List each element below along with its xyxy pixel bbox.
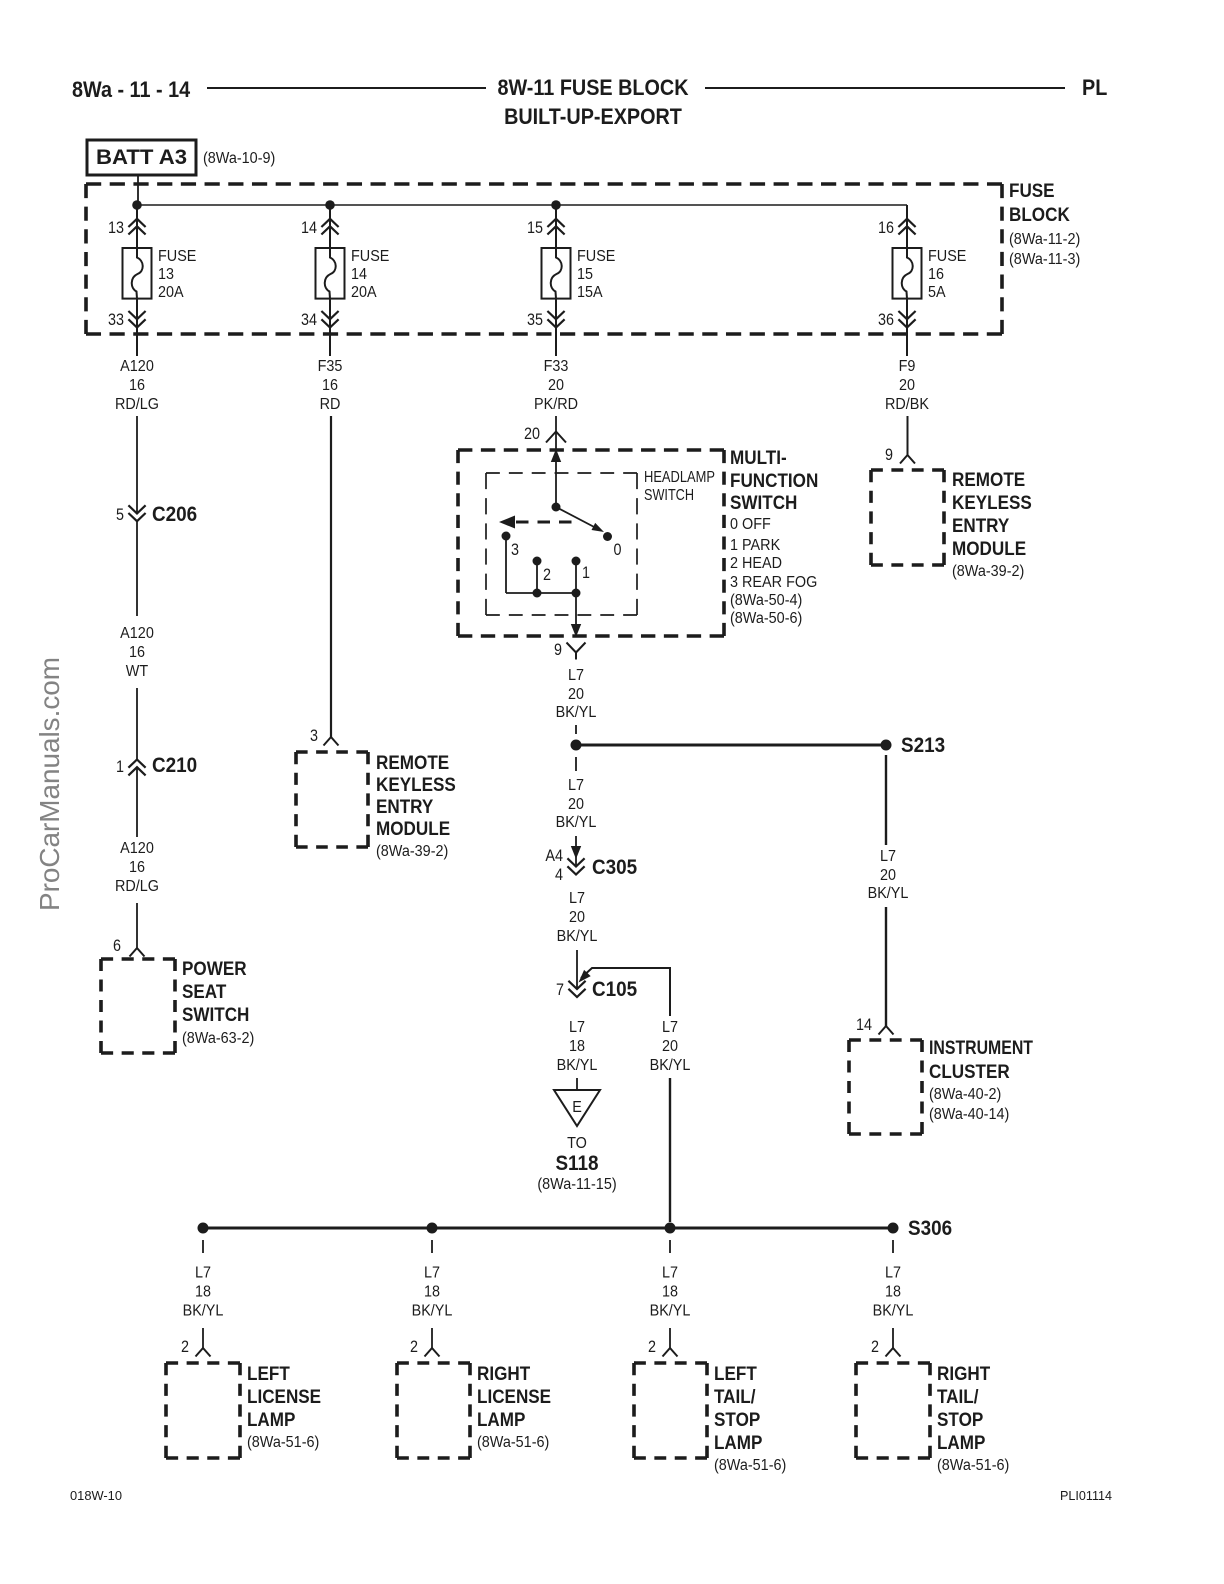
- splice node S306 c: [665, 1223, 676, 1234]
- svg-text:16: 16: [928, 266, 944, 283]
- svg-text:F9: F9: [899, 358, 916, 375]
- junction node under contact 1: [572, 589, 581, 598]
- fuse F15 symbol: [542, 248, 571, 299]
- fuse F16 symbol: [893, 248, 922, 299]
- component right license lamp (dashed box): [397, 1363, 470, 1458]
- svg-text:BK/YL: BK/YL: [650, 1057, 691, 1074]
- svg-text:E: E: [572, 1099, 582, 1116]
- wire F9 from fuse 16 to RKE module: [907, 416, 909, 455]
- svg-text:15: 15: [577, 266, 593, 283]
- svg-text:F35: F35: [318, 358, 343, 375]
- svg-text:1 PARK: 1 PARK: [730, 537, 781, 554]
- svg-text:L7: L7: [885, 1265, 901, 1282]
- label FUSE BLOCK: [1009, 181, 1080, 268]
- svg-text:6: 6: [113, 937, 121, 955]
- component left tail/stop lamp (dashed box): [634, 1363, 707, 1458]
- svg-text:14: 14: [351, 266, 367, 283]
- pin 36 connector chevrons: [898, 311, 915, 328]
- svg-text:20: 20: [899, 377, 915, 394]
- svg-text:(8Wa-51-6): (8Wa-51-6): [247, 1434, 319, 1451]
- svg-text:PK/RD: PK/RD: [534, 396, 578, 413]
- connector C206 chevrons: [128, 505, 145, 521]
- svg-text:BK/YL: BK/YL: [650, 1303, 691, 1320]
- splice node S306 d: [888, 1223, 899, 1234]
- fuse branch wire (fuse 16): [906, 205, 908, 356]
- wire from BATT A3 to fuse block bus: [137, 175, 139, 205]
- label MULTI-FUNCTION SWITCH: [730, 448, 818, 514]
- svg-text:BK/YL: BK/YL: [556, 814, 597, 831]
- svg-text:8Wa - 11 - 14: 8Wa - 11 - 14: [72, 77, 191, 102]
- svg-text:16: 16: [129, 859, 145, 876]
- svg-text:L7: L7: [568, 777, 584, 794]
- wire label L7 18 BK/YL to left tail/stop lamp: [650, 1265, 691, 1320]
- svg-text:FUNCTION: FUNCTION: [730, 471, 818, 492]
- svg-text:FUSE: FUSE: [158, 248, 196, 265]
- svg-text:18: 18: [195, 1284, 211, 1301]
- wire into right tail/stop lamp: [892, 1328, 894, 1348]
- svg-text:SEAT: SEAT: [182, 982, 227, 1003]
- label INSTRUMENT CLUSTER: [929, 1038, 1033, 1123]
- battery feed BATT A3 box: [87, 140, 196, 175]
- svg-text:BK/YL: BK/YL: [557, 1057, 598, 1074]
- connector C105 chevrons: [568, 981, 585, 997]
- svg-text:8W-11 FUSE BLOCK: 8W-11 FUSE BLOCK: [498, 75, 689, 100]
- wire into left tail/stop lamp: [669, 1328, 671, 1348]
- svg-text:S118: S118: [555, 1152, 598, 1175]
- svg-text:BK/YL: BK/YL: [873, 1303, 914, 1320]
- svg-text:STOP: STOP: [937, 1410, 984, 1431]
- svg-text:20: 20: [880, 867, 896, 884]
- wire label F33 20 PK/RD: [534, 358, 578, 413]
- svg-text:20: 20: [568, 796, 584, 813]
- svg-text:BK/YL: BK/YL: [868, 885, 909, 902]
- wire stub below S306 to left license lamp: [202, 1240, 204, 1253]
- wire into right license lamp: [431, 1328, 433, 1348]
- label REMOTE KEYLESS ENTRY MODULE: [376, 753, 456, 860]
- svg-text:L7: L7: [569, 1019, 585, 1036]
- splice node S213 right: [881, 740, 892, 751]
- svg-text:2: 2: [648, 1338, 656, 1356]
- splice node S306 b: [427, 1223, 438, 1234]
- svg-text:(8Wa-39-2): (8Wa-39-2): [376, 843, 448, 860]
- svg-text:TO: TO: [567, 1135, 587, 1152]
- svg-text:SWITCH: SWITCH: [644, 487, 694, 504]
- wire label F9 20 RD/BK: [885, 358, 930, 413]
- svg-text:STOP: STOP: [714, 1410, 761, 1431]
- svg-text:RIGHT: RIGHT: [477, 1364, 531, 1385]
- connector C210 chevrons: [128, 760, 145, 776]
- connector pin 9 of switch output: [567, 643, 586, 660]
- wire label L7 18 BK/YL to right tail/stop lamp: [873, 1265, 914, 1320]
- svg-text:TAIL/: TAIL/: [937, 1387, 979, 1408]
- multi-function switch outer dashed box: [458, 450, 724, 636]
- wire A120 from C206 to label: [136, 521, 138, 616]
- svg-text:9: 9: [554, 641, 562, 659]
- wire into left license lamp: [202, 1328, 204, 1348]
- component instrument cluster (dashed box): [849, 1040, 922, 1134]
- pin 15 connector chevrons: [547, 219, 564, 235]
- svg-text:14: 14: [301, 219, 317, 237]
- svg-text:PL: PL: [1082, 75, 1107, 100]
- connector pin 2 of left tail/stop lamp: [663, 1348, 678, 1357]
- svg-text:5: 5: [116, 506, 124, 524]
- connector pin 20 of multi-function switch: [546, 432, 566, 443]
- wire label L7 18 BK/YL to right license lamp: [412, 1265, 453, 1320]
- wire into C105: [576, 950, 578, 989]
- wire into C305: [575, 836, 577, 867]
- svg-text:L7: L7: [662, 1265, 678, 1282]
- fuse branch wire (fuse 13): [136, 205, 138, 356]
- switch position legend: [730, 516, 817, 627]
- svg-text:ENTRY: ENTRY: [952, 516, 1010, 537]
- svg-text:PLI01114: PLI01114: [1060, 1488, 1112, 1503]
- wire A120 from C210 down: [136, 767, 138, 837]
- svg-text:POWER: POWER: [182, 959, 247, 980]
- wire to instrument cluster: [885, 907, 887, 1026]
- svg-text:20A: 20A: [351, 284, 377, 301]
- header rule left: [207, 87, 486, 89]
- svg-text:(8Wa-11-2): (8Wa-11-2): [1009, 231, 1080, 248]
- wire F35 from fuse 14 to RKE module: [330, 416, 332, 737]
- wire label L7 20 BK/YL right branch: [650, 1019, 691, 1074]
- svg-text:18: 18: [662, 1284, 678, 1301]
- fuse F14 value label: [351, 248, 389, 301]
- wire stub below S306 to right tail/stop lamp: [892, 1240, 894, 1253]
- svg-text:FUSE: FUSE: [351, 248, 389, 265]
- svg-text:16: 16: [878, 219, 894, 237]
- connector pin 2 of left license lamp: [196, 1348, 211, 1357]
- svg-text:20: 20: [548, 377, 564, 394]
- splice node S306 a: [198, 1223, 209, 1234]
- switch travel dashed arrow: [499, 516, 577, 529]
- svg-text:KEYLESS: KEYLESS: [376, 775, 456, 796]
- fuse F15 value label: [577, 248, 615, 301]
- switch contact node 1: [572, 557, 581, 566]
- svg-text:13: 13: [108, 219, 124, 237]
- svg-text:15: 15: [527, 219, 543, 237]
- branch wire to right tail lamps feed: [579, 968, 671, 1016]
- svg-text:7: 7: [556, 981, 564, 999]
- label left license lamp: [247, 1364, 321, 1451]
- splice wire S213: [576, 744, 886, 747]
- svg-text:MULTI-: MULTI-: [730, 448, 787, 469]
- svg-text:A120: A120: [120, 358, 154, 375]
- svg-text:RD/LG: RD/LG: [115, 396, 159, 413]
- switch output wire: [575, 593, 577, 637]
- pin 33 connector chevrons: [128, 311, 145, 328]
- ground symbol E (to S118): [554, 1090, 600, 1126]
- fuse F13 symbol: [123, 248, 152, 299]
- wire A120 to power seat switch: [136, 903, 138, 948]
- connector pin 3 of RKE module: [324, 737, 339, 746]
- svg-text:SWITCH: SWITCH: [182, 1005, 249, 1026]
- splice node S213 left: [571, 740, 582, 751]
- svg-text:9: 9: [885, 446, 893, 464]
- svg-text:A4: A4: [545, 847, 563, 865]
- arrow into switch housing: [551, 449, 561, 462]
- label left tail/stop lamp: [714, 1364, 786, 1474]
- svg-text:L7: L7: [195, 1265, 211, 1282]
- wire stub below splice S213: [575, 757, 577, 771]
- switch contact node 3: [502, 532, 511, 541]
- wire label L7 20 BK/YL above C305: [556, 777, 597, 831]
- svg-text:F33: F33: [544, 358, 569, 375]
- connector pin 6 of power seat switch: [130, 948, 145, 957]
- component remote keyless entry module right (dashed box): [871, 470, 944, 565]
- svg-text:FUSE: FUSE: [1009, 181, 1055, 202]
- svg-text:(8Wa-39-2): (8Wa-39-2): [952, 563, 1024, 580]
- svg-text:MODULE: MODULE: [952, 539, 1026, 560]
- wire label L7 20 BK/YL above C105: [557, 890, 598, 945]
- svg-text:LICENSE: LICENSE: [247, 1387, 321, 1408]
- pin 34 connector chevrons: [321, 311, 338, 328]
- svg-text:INSTRUMENT: INSTRUMENT: [929, 1038, 1033, 1059]
- svg-text:HEADLAMP: HEADLAMP: [644, 469, 715, 486]
- svg-text:(8Wa-50-6): (8Wa-50-6): [730, 610, 802, 627]
- svg-text:14: 14: [856, 1016, 872, 1034]
- label HEADLAMP SWITCH: [644, 469, 715, 504]
- wire label A120 16 WT: [120, 625, 154, 680]
- svg-text:2: 2: [871, 1338, 879, 1356]
- svg-text:1: 1: [582, 564, 590, 582]
- svg-text:3: 3: [310, 727, 318, 745]
- switch internal wiring from contact 3: [506, 536, 576, 593]
- wire label L7 20 BK/YL right column: [868, 848, 909, 902]
- connector C305 chevrons: [567, 858, 584, 874]
- svg-text:C105: C105: [592, 978, 637, 1001]
- svg-text:(8Wa-40-14): (8Wa-40-14): [929, 1106, 1009, 1123]
- svg-text:TAIL/: TAIL/: [714, 1387, 756, 1408]
- junction node on bus at fuse 15: [551, 200, 561, 210]
- wire label F35 16 RD: [318, 358, 343, 413]
- svg-text:A120: A120: [120, 840, 154, 857]
- header rule right: [705, 87, 1065, 89]
- svg-text:(8Wa-63-2): (8Wa-63-2): [182, 1030, 254, 1047]
- label POWER SEAT SWITCH: [182, 959, 254, 1047]
- fuse F14 symbol: [316, 248, 345, 299]
- svg-text:(8Wa-51-6): (8Wa-51-6): [937, 1457, 1009, 1474]
- svg-text:RIGHT: RIGHT: [937, 1364, 991, 1385]
- wire stub below S306 to right license lamp: [431, 1240, 433, 1253]
- svg-text:L7: L7: [424, 1265, 440, 1282]
- wire label A120 16 RD/LG: [115, 840, 159, 895]
- svg-text:S306: S306: [908, 1217, 952, 1240]
- label right license lamp: [477, 1364, 551, 1451]
- svg-text:3: 3: [511, 541, 519, 559]
- svg-text:0 OFF: 0 OFF: [730, 516, 771, 533]
- junction node under contact 2: [533, 589, 542, 598]
- svg-text:LAMP: LAMP: [477, 1410, 526, 1431]
- svg-text:2: 2: [181, 1338, 189, 1356]
- connector pin 9 of RKE module right: [900, 455, 915, 464]
- wire label L7 18 BK/YL to left license lamp: [183, 1265, 224, 1320]
- svg-text:A120: A120: [120, 625, 154, 642]
- wire label A120 16 RD/LG: [115, 358, 159, 413]
- svg-text:BK/YL: BK/YL: [557, 928, 598, 945]
- svg-text:16: 16: [129, 377, 145, 394]
- wire label L7 20 BK/YL below switch: [556, 667, 597, 721]
- pin 13 connector chevrons: [128, 219, 145, 235]
- svg-text:34: 34: [301, 311, 317, 329]
- svg-text:20: 20: [662, 1038, 678, 1055]
- svg-text:18: 18: [569, 1038, 585, 1055]
- svg-text:16: 16: [322, 377, 338, 394]
- label TO S118: [537, 1135, 616, 1193]
- splice wire S306: [203, 1227, 893, 1230]
- fuse branch wire (fuse 15): [555, 205, 557, 356]
- svg-text:36: 36: [878, 311, 894, 329]
- svg-text:35: 35: [527, 311, 543, 329]
- component power seat switch (dashed box): [101, 959, 175, 1053]
- switch movable arm with arrow: [556, 507, 604, 532]
- connector pin 14 of instrument cluster: [879, 1026, 894, 1035]
- connector pin 2 of right tail/stop lamp: [886, 1348, 901, 1357]
- svg-text:WT: WT: [126, 663, 149, 680]
- svg-text:1: 1: [116, 758, 124, 776]
- pin 16 connector chevrons: [898, 219, 915, 235]
- switch contact node 2: [533, 557, 542, 566]
- wire A120 from fuse 13 to C206: [136, 416, 138, 514]
- component remote keyless entry module left (dashed box): [296, 752, 368, 847]
- svg-text:(8Wa-10-9): (8Wa-10-9): [203, 150, 275, 167]
- svg-text:SWITCH: SWITCH: [730, 493, 797, 514]
- svg-text:(8Wa-50-4): (8Wa-50-4): [730, 592, 802, 609]
- svg-text:LAMP: LAMP: [937, 1433, 986, 1454]
- svg-text:13: 13: [158, 266, 174, 283]
- svg-text:3 REAR FOG: 3 REAR FOG: [730, 574, 817, 591]
- wire into ground symbol: [576, 1078, 578, 1090]
- fuse F13 value label: [158, 248, 196, 301]
- arrow into C305: [571, 846, 581, 859]
- svg-text:BATT A3: BATT A3: [96, 146, 187, 169]
- wire from S213 down: [885, 755, 887, 845]
- svg-text:LICENSE: LICENSE: [477, 1387, 551, 1408]
- svg-text:KEYLESS: KEYLESS: [952, 493, 1032, 514]
- svg-text:L7: L7: [880, 848, 896, 865]
- arrow out of switch housing: [571, 624, 581, 637]
- svg-text:ProCarManuals.com: ProCarManuals.com: [34, 657, 65, 911]
- svg-text:RD: RD: [320, 396, 341, 413]
- svg-text:FUSE: FUSE: [928, 248, 966, 265]
- svg-text:(8Wa-11-15): (8Wa-11-15): [537, 1176, 616, 1193]
- svg-text:20: 20: [524, 425, 540, 443]
- svg-text:018W-10: 018W-10: [70, 1488, 122, 1503]
- label right tail/stop lamp: [937, 1364, 1009, 1474]
- pin 14 connector chevrons: [321, 219, 338, 235]
- svg-text:2 HEAD: 2 HEAD: [730, 555, 782, 572]
- svg-text:C206: C206: [152, 503, 197, 526]
- headlamp switch inner dashed box: [486, 473, 637, 615]
- svg-text:RD/BK: RD/BK: [885, 396, 930, 413]
- svg-text:L7: L7: [568, 667, 584, 684]
- svg-text:(8Wa-51-6): (8Wa-51-6): [477, 1434, 549, 1451]
- svg-text:L7: L7: [662, 1019, 678, 1036]
- wire right branch down to S306: [669, 1078, 671, 1222]
- svg-text:LEFT: LEFT: [247, 1364, 290, 1385]
- svg-text:BK/YL: BK/YL: [556, 704, 597, 721]
- svg-text:18: 18: [424, 1284, 440, 1301]
- svg-text:(8Wa-51-6): (8Wa-51-6): [714, 1457, 786, 1474]
- svg-text:C305: C305: [592, 856, 637, 879]
- svg-text:LAMP: LAMP: [247, 1410, 296, 1431]
- label REMOTE KEYLESS ENTRY MODULE right: [952, 470, 1032, 580]
- svg-text:(8Wa-11-3): (8Wa-11-3): [1009, 251, 1080, 268]
- svg-text:BK/YL: BK/YL: [183, 1303, 224, 1320]
- bus wire inside fuse block: [137, 204, 907, 206]
- svg-text:S213: S213: [901, 734, 945, 757]
- svg-text:MODULE: MODULE: [376, 819, 450, 840]
- svg-text:(8Wa-40-2): (8Wa-40-2): [929, 1086, 1001, 1103]
- svg-text:20: 20: [568, 686, 584, 703]
- svg-text:LAMP: LAMP: [714, 1433, 763, 1454]
- fuse branch wire (fuse 14): [329, 205, 331, 356]
- svg-text:2: 2: [543, 566, 551, 584]
- fuse block dashed outline: [86, 184, 1002, 334]
- svg-text:BUILT-UP-EXPORT: BUILT-UP-EXPORT: [504, 104, 682, 129]
- fuse F16 value label: [928, 248, 966, 301]
- wire F33 from fuse 15 to switch: [555, 416, 557, 507]
- svg-text:0: 0: [614, 541, 622, 559]
- svg-text:16: 16: [129, 644, 145, 661]
- svg-text:FUSE: FUSE: [577, 248, 615, 265]
- component left license lamp (dashed box): [166, 1363, 240, 1458]
- svg-text:CLUSTER: CLUSTER: [929, 1062, 1010, 1083]
- svg-text:15A: 15A: [577, 284, 603, 301]
- connector pin 2 of right license lamp: [425, 1348, 440, 1357]
- svg-text:BK/YL: BK/YL: [412, 1303, 453, 1320]
- wire stub below S306 to left tail/stop lamp: [669, 1240, 671, 1253]
- svg-text:20A: 20A: [158, 284, 184, 301]
- svg-text:5A: 5A: [928, 284, 946, 301]
- svg-text:18: 18: [885, 1284, 901, 1301]
- svg-text:4: 4: [555, 866, 563, 884]
- component right tail/stop lamp (dashed box): [856, 1363, 930, 1458]
- svg-text:20: 20: [569, 909, 585, 926]
- svg-text:BLOCK: BLOCK: [1009, 205, 1070, 226]
- svg-text:33: 33: [108, 311, 124, 329]
- svg-text:REMOTE: REMOTE: [376, 753, 449, 774]
- wire label L7 18 BK/YL above ground: [557, 1019, 598, 1074]
- svg-text:REMOTE: REMOTE: [952, 470, 1025, 491]
- wire stub above splice S213: [575, 725, 577, 734]
- svg-text:2: 2: [410, 1338, 418, 1356]
- junction node on bus at fuse 13: [132, 200, 142, 210]
- svg-text:C210: C210: [152, 754, 197, 777]
- wire A120 from label to C210: [136, 688, 138, 760]
- junction node on bus at fuse 14: [325, 200, 335, 210]
- switch contact node 0: [603, 532, 612, 541]
- svg-text:ENTRY: ENTRY: [376, 797, 434, 818]
- switch common node: [552, 503, 561, 512]
- svg-text:LEFT: LEFT: [714, 1364, 757, 1385]
- pin 35 connector chevrons: [547, 311, 564, 328]
- svg-text:L7: L7: [569, 890, 585, 907]
- svg-text:RD/LG: RD/LG: [115, 878, 159, 895]
